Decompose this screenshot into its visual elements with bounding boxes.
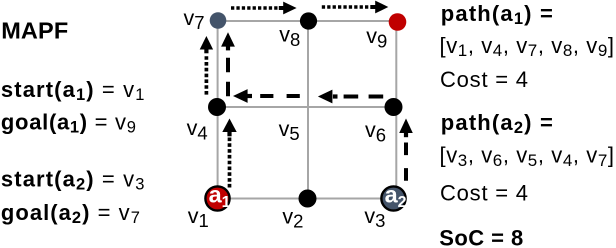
arrow a1 path v1->v4 (dotted)	[222, 119, 236, 188]
svg-text:a2: a2	[385, 182, 407, 212]
wire v2-v5-v8 middle vertical	[307, 21, 309, 199]
arrow a2 path v3->v6 (dashed)	[399, 119, 413, 181]
node v8	[300, 12, 317, 29]
node v6	[385, 98, 403, 116]
svg-text:v8: v8	[279, 23, 300, 51]
wire v1-v4-v7 left vertical	[217, 21, 219, 199]
svg-text:[v1, v4, v7, v8, v9]: [v1, v4, v7, v8, v9]	[440, 33, 615, 60]
node v2	[299, 190, 317, 208]
wire v4-v5-v6 middle horizontal	[217, 106, 396, 108]
svg-text:goal(a1) = v9: goal(a1) = v9	[1, 110, 136, 137]
svg-text:goal(a2) = v7: goal(a2) = v7	[1, 200, 140, 227]
svg-text:a1: a1	[209, 182, 231, 212]
wire v7-v8-v9 top horizontal	[218, 20, 397, 22]
wire v1-v2-v3 bottom horizontal	[217, 198, 396, 200]
agent a1 at v1	[205, 182, 230, 212]
svg-text:v3: v3	[364, 204, 385, 231]
arrow a1 path v8->v9 (dotted)	[322, 1, 389, 14]
svg-text:v2: v2	[282, 205, 303, 232]
node v9	[389, 13, 407, 31]
svg-text:v9: v9	[366, 24, 387, 52]
svg-text:v1: v1	[188, 204, 209, 231]
svg-text:v4: v4	[187, 116, 208, 143]
svg-text:path(a2) =: path(a2) =	[441, 110, 553, 137]
arrow a1 path v7->v8 (dotted)	[231, 2, 297, 15]
arrow a1 path v4->v7 (dotted)	[200, 36, 213, 95]
arrow a2 path v6->v5 (dashed)	[318, 90, 383, 104]
svg-text:SoC = 8: SoC = 8	[439, 225, 523, 248]
svg-text:path(a1) =: path(a1) =	[441, 1, 553, 28]
svg-text:start(a1) = v1: start(a1) = v1	[1, 77, 145, 104]
svg-text:MAPF: MAPF	[1, 18, 68, 44]
node v7	[210, 12, 227, 29]
svg-text:Cost = 4: Cost = 4	[440, 67, 528, 92]
svg-text:Cost = 4: Cost = 4	[440, 181, 528, 206]
wire v3-v6-v9 right vertical	[395, 22, 397, 199]
agent a2 at v3	[381, 182, 406, 212]
svg-text:start(a2) = v3: start(a2) = v3	[1, 167, 145, 194]
arrow a2 path v5->v4 (dashed)	[233, 89, 300, 103]
arrow a2 path v4->v7 (dashed)	[221, 32, 235, 96]
svg-text:v5: v5	[279, 117, 300, 144]
svg-text:v7: v7	[184, 6, 205, 33]
svg-text:v6: v6	[365, 118, 386, 145]
node v4	[208, 98, 226, 116]
svg-text:[v3, v6, v5, v4, v7]: [v3, v6, v5, v4, v7]	[440, 142, 615, 169]
